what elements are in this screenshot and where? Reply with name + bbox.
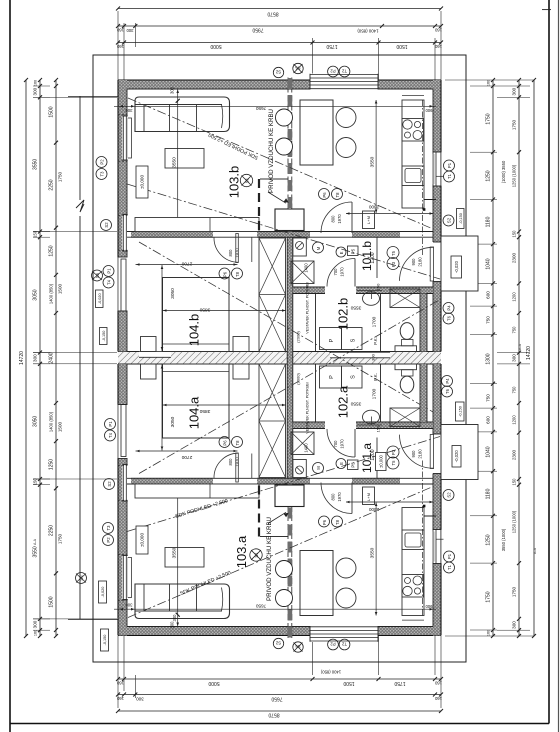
svg-text:P1: P1 [447, 162, 452, 168]
svg-text:T8: T8 [235, 271, 240, 277]
svg-text:1750: 1750 [58, 533, 63, 544]
svg-text:1250: 1250 [49, 245, 55, 256]
svg-text:P1: P1 [107, 268, 112, 274]
mirrored bottom half [114, 300, 478, 643]
svg-text:3550: 3550 [33, 546, 39, 557]
svg-text:3850: 3850 [199, 408, 210, 414]
right extension stubs [470, 85, 497, 87]
svg-text:P4: P4 [445, 378, 450, 384]
svg-text:P6: P6 [222, 271, 227, 277]
bedroom dim hline 3850 [163, 310, 287, 312]
living room dim hline 7650 [114, 105, 436, 107]
bottom extension lines [117, 636, 119, 708]
svg-text:1180: 1180 [486, 488, 492, 499]
svg-text:1500: 1500 [396, 43, 407, 49]
outer wall right band [433, 80, 441, 352]
left labels lower [105, 419, 116, 430]
level box 0.000 bottom hall [376, 453, 387, 471]
svg-text:-0,020: -0,020 [98, 293, 102, 304]
top dimension chain row1 overall 8570 [118, 8, 441, 10]
right wall entry door opening [432, 242, 442, 282]
central wall notch left [139, 352, 171, 358]
diag roofline living-kitchen [128, 98, 433, 229]
svg-text:1750: 1750 [58, 171, 63, 182]
right labels lower [442, 376, 453, 387]
svg-text:1970: 1970 [337, 214, 342, 224]
svg-text:900: 900 [425, 108, 433, 113]
svg-text:160: 160 [116, 28, 124, 33]
svg-text:800: 800 [228, 249, 233, 257]
svg-text:700: 700 [333, 440, 338, 448]
svg-text:1250 (1000): 1250 (1000) [512, 164, 517, 187]
svg-text:P6: P6 [322, 192, 327, 198]
kitchen door circles P6 T8 [319, 189, 330, 200]
entry door arc [400, 247, 434, 281]
kitchen-hall dim 2300 [346, 213, 433, 215]
fireplace corner lines [260, 178, 289, 180]
svg-text:T2: T2 [341, 69, 347, 74]
svg-text:300: 300 [126, 28, 134, 33]
left labels upper [96, 157, 107, 168]
svg-text:2400: 2400 [49, 352, 55, 363]
svg-text:S: S [351, 338, 357, 342]
svg-text:A-A: A-A [518, 343, 522, 350]
svg-text:300: 300 [33, 620, 38, 628]
diag roofline hall [127, 184, 440, 279]
svg-text:1400 (850): 1400 (850) [320, 670, 341, 675]
svg-text:P.K.: P.K. [373, 337, 378, 345]
bottom dimension chain row1 [118, 678, 441, 680]
fireplace hearth box [275, 209, 304, 231]
kitchen dim vline 3550 [375, 100, 377, 213]
svg-text:S2: S2 [275, 641, 281, 646]
bedroom door arc [214, 237, 238, 262]
left wall window bedroom upper [122, 215, 127, 252]
right border tick [542, 9, 551, 11]
bathroom right wall [420, 294, 427, 352]
svg-text:1180: 1180 [486, 216, 492, 227]
svg-text:1750: 1750 [486, 591, 492, 602]
svg-text:800: 800 [228, 458, 233, 466]
svg-text:1040: 1040 [486, 446, 492, 457]
svg-text:1970: 1970 [340, 439, 345, 449]
svg-text:1400 (850): 1400 (850) [357, 29, 379, 34]
svg-text:300: 300 [125, 603, 133, 608]
left extension stubs [33, 85, 50, 87]
svg-text:2300: 2300 [512, 252, 517, 263]
right chainC overall 14720 [533, 80, 535, 636]
svg-text:600: 600 [486, 291, 491, 299]
page frame bottom border [10, 723, 549, 725]
hall P5 box [348, 246, 359, 256]
page frame right border [548, 0, 550, 724]
svg-text:1750: 1750 [394, 680, 405, 686]
svg-text:T6: T6 [445, 388, 450, 394]
left wall terrace door bedroom [117, 257, 128, 311]
svg-text:P6: P6 [322, 519, 327, 525]
svg-text:300: 300 [512, 87, 517, 95]
svg-text:(2000): (2000) [296, 373, 301, 385]
svg-text:160: 160 [116, 681, 124, 686]
living room sideboard cabinets [135, 218, 259, 232]
top extension lines [117, 11, 119, 80]
svg-text:104.a: 104.a [187, 396, 202, 429]
svg-text:PRIVOD VZDUCHU KE KRBU: PRIVOD VZDUCHU KE KRBU [267, 517, 273, 601]
hall circle M [313, 242, 324, 253]
left wall window living room [122, 116, 127, 160]
hall door 700 leaf and arc [354, 259, 356, 287]
left overall dimension 14720 [25, 80, 27, 636]
toilet [395, 346, 417, 352]
svg-text:P5: P5 [350, 248, 355, 254]
sloped ceiling note top [208, 131, 260, 160]
svg-text:S2: S2 [447, 217, 452, 223]
level box 0.000 top [136, 166, 148, 198]
svg-text:A-A: A-A [533, 547, 537, 554]
S1 circle bottom [250, 549, 262, 561]
bathroom washbasin [357, 290, 382, 292]
svg-text:-0,020: -0,020 [454, 260, 459, 273]
svg-text:750: 750 [486, 394, 491, 402]
right chainB [518, 80, 520, 636]
svg-text:300: 300 [136, 697, 144, 702]
svg-text:P4: P4 [447, 305, 452, 311]
bottom labels below wall [273, 638, 283, 648]
svg-text:S2: S2 [275, 70, 281, 75]
svg-text:1700: 1700 [372, 316, 378, 327]
svg-text:8570: 8570 [268, 712, 279, 718]
svg-text:±0,000: ±0,000 [378, 454, 383, 467]
svg-text:E: E [339, 251, 344, 254]
svg-text:1750: 1750 [512, 586, 517, 597]
svg-text:3850: 3850 [199, 307, 210, 313]
svg-text:3550 (1000): 3550 (1000) [501, 528, 506, 551]
entry door circles P3 T5 [387, 247, 399, 259]
living room dim vline 300-3550 [177, 89, 179, 232]
svg-text:750: 750 [512, 326, 517, 334]
shaft wall line [315, 294, 317, 352]
svg-text:S: S [351, 375, 357, 379]
fridge L+M box [363, 211, 375, 229]
outer wall top band [118, 80, 441, 89]
svg-text:P3: P3 [391, 261, 396, 267]
svg-text:T2: T2 [341, 642, 347, 647]
page edge right [558, 0, 560, 732]
svg-text:3550: 3550 [33, 159, 39, 170]
svg-text:300: 300 [33, 87, 38, 95]
svg-text:160: 160 [34, 80, 38, 86]
svg-text:2300: 2300 [512, 449, 517, 460]
svg-text:300: 300 [512, 621, 517, 629]
interior wall band hall-bathroom [293, 287, 325, 294]
svg-text:P2: P2 [330, 642, 336, 647]
central wall notch right [330, 352, 390, 358]
svg-text:(2000): (2000) [296, 331, 301, 343]
svg-text:2700: 2700 [181, 261, 192, 267]
svg-text:-0,150: -0,150 [103, 635, 107, 646]
top wall window [310, 74, 378, 90]
svg-text:3050: 3050 [33, 289, 39, 300]
svg-text:150: 150 [512, 478, 517, 486]
svg-text:-0,020: -0,020 [101, 587, 105, 598]
dryer S [342, 328, 363, 350]
svg-text:T8: T8 [335, 519, 340, 525]
svg-text:S2: S2 [104, 222, 109, 228]
hall closet X [291, 261, 314, 284]
radiator under living window [128, 118, 132, 158]
svg-text:T1: T1 [447, 173, 452, 179]
top dimension chain row2 [118, 25, 441, 27]
svg-text:160: 160 [487, 80, 491, 86]
svg-text:300: 300 [33, 354, 38, 362]
nightstand left [141, 337, 157, 352]
site boundary rectangle [93, 55, 466, 662]
svg-text:1970: 1970 [235, 457, 240, 467]
svg-text:±0,000: ±0,000 [140, 175, 145, 189]
svg-text:160: 160 [34, 630, 38, 636]
svg-text:P1: P1 [108, 421, 113, 427]
svg-text:3550: 3550 [350, 305, 361, 311]
diag roofline cross-center [139, 242, 440, 416]
svg-text:300: 300 [172, 614, 177, 622]
svg-text:750: 750 [512, 386, 517, 394]
svg-text:T8: T8 [335, 192, 340, 198]
svg-text:1200: 1200 [370, 252, 376, 263]
svg-text:M: M [316, 466, 321, 470]
interior wall band rooms divider [127, 231, 433, 233]
svg-text:7650: 7650 [271, 696, 282, 702]
svg-text:T5: T5 [391, 460, 396, 466]
fireplace air circles on party wall [276, 109, 293, 126]
svg-text:800: 800 [331, 493, 336, 501]
svg-text:T4: T4 [107, 279, 112, 285]
svg-text:3550: 3550 [172, 547, 178, 558]
svg-text:2300: 2300 [368, 507, 379, 512]
svg-text:1250 (1000): 1250 (1000) [512, 510, 517, 533]
svg-text:700: 700 [333, 268, 338, 276]
svg-text:103.a: 103.a [234, 535, 249, 568]
svg-text:P3: P3 [391, 449, 396, 455]
party wall dashed upper section [287, 78, 289, 232]
svg-text:1970: 1970 [235, 248, 240, 258]
bottom dimension chain row3 overall 8570 [118, 710, 441, 712]
top labels above wall [273, 67, 283, 77]
svg-text:P2: P2 [100, 159, 105, 165]
bedroom dim hline 2700 [136, 264, 238, 266]
svg-text:102.a: 102.a [336, 385, 351, 418]
hall partition line [376, 237, 378, 278]
svg-text:300: 300 [125, 108, 133, 113]
svg-text:800: 800 [331, 215, 336, 223]
svg-text:T8: T8 [235, 440, 240, 446]
stove [402, 119, 424, 142]
svg-text:VESTAVEK PLNOST. POTRUBI: VESTAVEK PLNOST. POTRUBI [306, 382, 310, 433]
svg-text:2700: 2700 [181, 454, 192, 460]
kitchen counter [402, 100, 424, 208]
svg-text:5000: 5000 [208, 680, 219, 686]
svg-text:T1: T1 [447, 564, 452, 570]
svg-text:P: P [329, 338, 335, 342]
svg-text:P5: P5 [350, 462, 355, 468]
top dimension chain row3 [118, 42, 441, 44]
svg-text:1970: 1970 [340, 267, 345, 277]
svg-text:1750: 1750 [326, 43, 337, 49]
svg-text:P2: P2 [106, 537, 111, 543]
svg-text:3550: 3550 [370, 547, 376, 558]
svg-text:P6: P6 [222, 440, 227, 446]
svg-text:1200: 1200 [512, 292, 517, 302]
svg-text:M: M [316, 246, 321, 250]
svg-text:L+M: L+M [366, 493, 371, 501]
svg-text:8570: 8570 [267, 11, 278, 17]
svg-text:1700: 1700 [372, 388, 378, 399]
svg-text:900: 900 [411, 450, 416, 458]
svg-text:(1000) 3550: (1000) 3550 [501, 160, 506, 183]
svg-text:1400 (850): 1400 (850) [49, 283, 54, 304]
svg-text:102.b: 102.b [336, 298, 351, 331]
svg-text:3050: 3050 [170, 416, 176, 427]
svg-text:2250: 2250 [49, 179, 55, 190]
svg-text:2180: 2180 [418, 257, 423, 267]
svg-text:L+M: L+M [366, 216, 371, 224]
svg-text:900: 900 [411, 258, 416, 266]
svg-text:1400: 1400 [304, 263, 309, 273]
entry porch [441, 236, 478, 291]
right labels upper [444, 160, 455, 171]
svg-text:103.b: 103.b [227, 166, 242, 199]
svg-text:3050: 3050 [33, 416, 39, 427]
svg-text:1500: 1500 [343, 680, 354, 686]
svg-text:A-A: A-A [33, 538, 37, 545]
svg-text:1970: 1970 [337, 492, 342, 502]
svg-text:160: 160 [487, 630, 491, 636]
bedroom bed [163, 278, 230, 352]
svg-text:3550: 3550 [350, 401, 361, 407]
kitchen chairs circles [336, 108, 356, 128]
svg-text:T5: T5 [391, 250, 396, 256]
nightstand right [233, 337, 249, 352]
svg-text:1300: 1300 [486, 353, 492, 364]
washing machine P [320, 328, 342, 350]
left chain3 [55, 80, 57, 636]
svg-text:1200: 1200 [512, 415, 517, 425]
svg-text:-0,150: -0,150 [102, 331, 106, 342]
svg-text:VESTAVEK PLNOST. POTRUBI: VESTAVEK PLNOST. POTRUBI [306, 282, 310, 333]
svg-text:14720: 14720 [19, 351, 25, 365]
svg-text:3550: 3550 [172, 157, 178, 168]
svg-text:104.b: 104.b [187, 314, 202, 347]
svg-text:1750: 1750 [486, 113, 492, 124]
hall chimney box [293, 238, 307, 256]
bedroom wardrobe X column [259, 238, 286, 352]
svg-text:2180: 2180 [418, 449, 423, 459]
svg-text:S2: S2 [447, 492, 452, 498]
svg-text:160: 160 [116, 696, 124, 701]
kitchen axis dash-dot line [422, 100, 424, 255]
svg-text:2300: 2300 [368, 205, 379, 210]
svg-text:1500: 1500 [58, 283, 63, 294]
svg-text:1250: 1250 [486, 534, 492, 545]
kitchen dining table [300, 100, 333, 165]
svg-text:150: 150 [376, 425, 381, 432]
svg-text:150: 150 [376, 283, 381, 290]
fireplace leader arrow [268, 192, 286, 203]
svg-text:300: 300 [371, 353, 376, 360]
svg-text:1250: 1250 [49, 459, 55, 470]
svg-text:3050: 3050 [170, 288, 176, 299]
svg-text:7650: 7650 [255, 604, 266, 609]
svg-text:-0,150: -0,150 [458, 406, 462, 417]
svg-text:P1: P1 [447, 553, 452, 559]
svg-text:T3: T3 [100, 171, 105, 177]
svg-text:±0,000: ±0,000 [140, 533, 145, 547]
sloped ceiling note bottom on D1 [179, 570, 232, 597]
svg-text:14720: 14720 [526, 346, 532, 360]
svg-text:300: 300 [512, 354, 517, 362]
bedroom door circles [219, 268, 230, 279]
svg-text:T6: T6 [447, 315, 452, 321]
party wall hatched section [287, 232, 293, 485]
right chainA [492, 80, 494, 636]
S1 circle top [240, 174, 252, 186]
svg-text:300: 300 [170, 86, 175, 94]
svg-text:-0,020: -0,020 [454, 450, 459, 463]
svg-text:1500: 1500 [49, 106, 55, 117]
svg-text:1250: 1250 [486, 170, 492, 181]
svg-text:3550: 3550 [370, 156, 376, 167]
svg-text:900: 900 [425, 604, 433, 609]
level box 0.000 bottom [136, 526, 148, 554]
bedroom dim vline 3050 [161, 265, 163, 351]
svg-text:600: 600 [486, 416, 491, 424]
page frame left border [9, 0, 11, 732]
outer wall left band [118, 80, 127, 352]
svg-text:S2: S2 [107, 481, 112, 487]
central dividing wall hatched band [118, 352, 441, 365]
right wall window kitchen [432, 152, 442, 186]
svg-text:P: P [329, 375, 335, 379]
svg-text:7650: 7650 [255, 106, 266, 111]
svg-text:1750: 1750 [512, 119, 517, 130]
svg-text:750: 750 [486, 316, 491, 324]
svg-text:150: 150 [512, 230, 517, 238]
sink [402, 166, 424, 186]
sloped ceiling note bottom on D2 [175, 498, 229, 520]
svg-text:T4: T4 [108, 432, 113, 438]
svg-text:7950: 7950 [252, 27, 263, 33]
svg-text:PRIVOD VZDUCHU KE KRBU: PRIVOD VZDUCHU KE KRBU [269, 109, 275, 193]
svg-text:-0,150: -0,150 [459, 213, 463, 224]
sofa living room [135, 97, 230, 132]
bathroom shower X [390, 289, 420, 308]
hall circle E [336, 247, 346, 257]
left chain2 wall positions [39, 80, 41, 636]
svg-text:P2: P2 [330, 69, 336, 74]
svg-text:1400: 1400 [304, 443, 309, 453]
svg-text:1500: 1500 [58, 421, 63, 432]
svg-text:1500: 1500 [49, 596, 55, 607]
svg-text:E: E [339, 462, 344, 465]
svg-text:5000: 5000 [210, 43, 221, 49]
coffee table [165, 149, 204, 169]
bottom dimension chain row2 [118, 694, 441, 696]
svg-text:1400 (850): 1400 (850) [49, 411, 54, 432]
terrace edge line with break symbol [79, 96, 81, 200]
svg-text:160: 160 [116, 44, 124, 49]
svg-text:2250: 2250 [49, 525, 55, 536]
kitchen door arc [351, 202, 353, 233]
svg-text:P.K.: P.K. [373, 373, 378, 381]
